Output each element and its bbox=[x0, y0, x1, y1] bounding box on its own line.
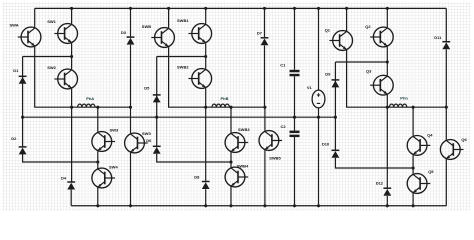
wire SW3 emitter to SW4 bbox=[97, 151, 99, 168]
svg-text:C2: C2 bbox=[281, 124, 287, 129]
wire D11 column bbox=[445, 8, 447, 42]
diode D6 bbox=[153, 146, 161, 154]
svg-text:SWA: SWA bbox=[10, 22, 19, 27]
transistor Q1 bbox=[329, 31, 352, 51]
svg-text:Q4: Q4 bbox=[427, 132, 433, 137]
inductor PhB bbox=[212, 104, 229, 107]
wire SWB2 emitter / D8 column bbox=[205, 88, 207, 181]
wire SW3 collector bbox=[97, 107, 99, 132]
wire bus n lower / lower wire n bbox=[335, 158, 413, 168]
node mid B / SWB1-SWB2 bbox=[204, 55, 207, 58]
node mid-bus / V1 bus bbox=[317, 116, 320, 119]
diode D5 bbox=[153, 95, 161, 103]
diode D7 bbox=[261, 38, 269, 46]
wire V1 bus upper bbox=[318, 8, 320, 90]
wire Q3 emitter / D12 column bbox=[386, 95, 388, 189]
capacitor C2 bbox=[290, 131, 300, 137]
svg-text:Q6: Q6 bbox=[461, 137, 467, 142]
node top rail / C bus bbox=[293, 7, 296, 10]
wire D4 anode to bottom rail bbox=[70, 190, 72, 206]
transistor SWB4 bbox=[225, 167, 248, 187]
node top rail / SWB bbox=[167, 7, 170, 10]
wire SWB3 emitter to SWB4 bbox=[230, 152, 232, 167]
node phase n / D11-Q6 bbox=[445, 106, 448, 109]
svg-text:D7: D7 bbox=[257, 30, 263, 35]
node bottom rail / D8 bbox=[204, 204, 207, 207]
node mid-bus / C link midpoint bbox=[293, 116, 296, 119]
wire SW5 collector bbox=[130, 107, 132, 133]
wire D12 anode to bottom rail bbox=[386, 196, 388, 206]
svg-text:Q3: Q3 bbox=[366, 69, 372, 74]
node phase n / Q4 bbox=[412, 106, 415, 109]
node mid n / Q2-Q3 bbox=[386, 60, 389, 63]
wire C bus upper bbox=[294, 8, 296, 69]
wire V1 bus lower bbox=[318, 108, 320, 206]
voltage source V1 bbox=[312, 90, 325, 108]
wire bus B lower / lower wire B bbox=[157, 154, 231, 162]
diode D12 bbox=[383, 188, 391, 196]
node top rail / V1 bbox=[317, 7, 320, 10]
transistor SW3 bbox=[92, 132, 115, 152]
capacitor C1 bbox=[290, 70, 300, 76]
svg-text:V1: V1 bbox=[307, 85, 313, 90]
transistor Q3 bbox=[370, 75, 393, 95]
svg-text:SW2: SW2 bbox=[47, 65, 56, 70]
svg-text:SWB: SWB bbox=[142, 24, 151, 29]
wire Q5 emitter bbox=[412, 193, 414, 206]
wire SWB5 emitter bbox=[264, 150, 266, 206]
wire bus A (D1-D2) bbox=[22, 57, 24, 148]
wire Q6 emitter bbox=[445, 159, 447, 206]
svg-text:C1: C1 bbox=[280, 63, 286, 68]
diode D4 bbox=[67, 182, 75, 190]
wire top rail bbox=[35, 7, 447, 9]
transistor Q4 bbox=[407, 136, 430, 156]
svg-text:SW5: SW5 bbox=[142, 131, 151, 136]
wire Q1 collector bbox=[346, 8, 348, 31]
svg-text:SW1: SW1 bbox=[47, 19, 56, 24]
wire SWB emitter to phase node bbox=[169, 47, 265, 107]
svg-text:SWB3: SWB3 bbox=[238, 127, 250, 132]
diode D2 bbox=[19, 147, 27, 155]
transistor SWB5 bbox=[259, 131, 282, 151]
transistor SW4 bbox=[92, 168, 115, 188]
node bottom rail / SWB5 bbox=[263, 204, 266, 207]
node mid-bus / bus A bbox=[21, 116, 24, 119]
svg-text:Q5: Q5 bbox=[428, 169, 434, 174]
node bottom rail / SW4 bbox=[96, 204, 99, 207]
diode D10 bbox=[332, 150, 340, 158]
wire D3 column bbox=[130, 8, 132, 37]
wire SW2 collector bbox=[71, 57, 73, 70]
node phase B / D7-SWB5 bbox=[263, 106, 266, 109]
node lower n / Q4-Q5 bbox=[412, 166, 415, 169]
node phase B / SWB3 bbox=[229, 106, 232, 109]
wire SWA collector bbox=[34, 8, 36, 27]
wire bus B (D5-D6) bbox=[156, 57, 158, 148]
node mid-bus / bus n end bbox=[334, 116, 337, 119]
wire SWB collector bbox=[168, 8, 170, 27]
wire C1 to mid-bus bbox=[294, 76, 296, 130]
wire SWB1 collector bbox=[205, 8, 207, 23]
svg-text:SWB5: SWB5 bbox=[269, 156, 281, 161]
wire D7 to phase wire bbox=[264, 46, 266, 108]
node phase B / SWB2-D8 bbox=[204, 106, 207, 109]
node top rail / D3 bbox=[129, 7, 132, 10]
transistor SW2 bbox=[54, 69, 77, 89]
node bottom rail / SW5 bbox=[129, 204, 132, 207]
node lower B / SWB3-SWB4 bbox=[229, 160, 232, 163]
wire SWB1 emitter lead bbox=[205, 43, 207, 56]
diode D11 bbox=[442, 42, 450, 50]
svg-text:Q2: Q2 bbox=[365, 24, 371, 29]
svg-text:Q1: Q1 bbox=[325, 28, 331, 33]
transistor Q2 bbox=[370, 27, 393, 47]
node top rail / Q2 bbox=[386, 7, 389, 10]
transistor SWB bbox=[151, 28, 174, 48]
node top rail / Q1 bbox=[345, 7, 348, 10]
wire D3 to phase wire bbox=[130, 45, 132, 107]
wire SW2 emitter / D4 column bbox=[71, 89, 73, 182]
wire mid wire n bbox=[335, 61, 387, 63]
svg-text:PhA: PhA bbox=[86, 96, 94, 101]
transistor SWB1 bbox=[189, 24, 212, 44]
wire SW1 collector bbox=[71, 8, 73, 23]
wire SWB5 collector bbox=[264, 107, 266, 131]
wire SWA emitter to phase node bbox=[35, 47, 131, 107]
svg-text:D1: D1 bbox=[13, 68, 19, 73]
transistor SW5 bbox=[125, 133, 148, 153]
wire bus A lower / lower wire A bbox=[23, 154, 98, 162]
inductor Phn bbox=[389, 104, 406, 107]
svg-text:D6: D6 bbox=[146, 138, 152, 143]
node phase A / SW3 bbox=[96, 106, 99, 109]
wire D7 column bbox=[264, 8, 266, 38]
wire mid wire B bbox=[157, 56, 206, 58]
wire bus n (D9-D10) bbox=[334, 62, 336, 151]
transistor SW1 bbox=[54, 24, 77, 44]
svg-text:D2: D2 bbox=[11, 136, 17, 141]
wire SWB3 collector bbox=[230, 107, 232, 133]
svg-text:SWB2: SWB2 bbox=[177, 64, 189, 69]
wire bottom rail bbox=[71, 205, 446, 207]
svg-text:D12: D12 bbox=[376, 180, 384, 185]
wire Q2 emitter lead bbox=[386, 47, 388, 62]
inductor PhA bbox=[78, 104, 95, 107]
wire SWB2 collector bbox=[205, 57, 207, 69]
svg-text:D8: D8 bbox=[194, 174, 200, 179]
node bottom rail / Q5 bbox=[412, 204, 415, 207]
node phase A / D3-SW5 bbox=[129, 106, 132, 109]
diode D8 bbox=[202, 182, 210, 190]
svg-text:D3: D3 bbox=[121, 30, 127, 35]
svg-text:SWB4: SWB4 bbox=[237, 163, 249, 168]
wire SW1 emitter / mid wire A bbox=[23, 56, 72, 58]
node mid A / SW1-SW2 bbox=[70, 55, 73, 58]
node mid-bus / bus B bbox=[155, 116, 158, 119]
node lower A / SW3-SW4 bbox=[96, 160, 99, 163]
wire SW4 emitter bbox=[97, 188, 99, 206]
node phase n / Q3-D12 bbox=[386, 106, 389, 109]
wire Q1 emitter to phase node bbox=[347, 50, 447, 107]
transistor SWA bbox=[18, 27, 41, 47]
wire SW1 emitter lead bbox=[71, 43, 73, 56]
diode D1 bbox=[19, 76, 27, 84]
wire SWB4 emitter bbox=[230, 187, 232, 206]
wire Q6 collector bbox=[445, 107, 447, 140]
wire SW5 emitter bbox=[130, 153, 132, 206]
node bottom rail / D12 bbox=[386, 204, 389, 207]
svg-text:SW3: SW3 bbox=[110, 127, 119, 132]
wire D8 anode to bottom rail bbox=[205, 189, 207, 206]
svg-text:SW4: SW4 bbox=[109, 165, 118, 170]
diode D9 bbox=[332, 80, 340, 88]
wire Q3 collector bbox=[386, 62, 388, 76]
wire Q4 collector bbox=[412, 107, 414, 136]
transistor Q5 bbox=[407, 174, 430, 194]
svg-text:D9: D9 bbox=[325, 71, 331, 76]
svg-text:PhB: PhB bbox=[221, 96, 229, 101]
node bottom rail / C bus bbox=[293, 204, 296, 207]
node top rail / SW1 bbox=[70, 7, 73, 10]
diode D3 bbox=[127, 37, 135, 45]
wire mid-bus (neutral) bbox=[23, 116, 336, 118]
svg-text:SWB1: SWB1 bbox=[177, 18, 189, 23]
wire C2 to bottom rail bbox=[294, 137, 296, 206]
svg-text:D11: D11 bbox=[434, 35, 442, 40]
wire Q4 emitter to Q5 bbox=[412, 155, 414, 174]
node bottom rail / SWB4 bbox=[229, 204, 232, 207]
svg-text:Phn: Phn bbox=[400, 96, 408, 101]
transistor SWB3 bbox=[225, 133, 248, 153]
transistor Q6 bbox=[440, 140, 463, 160]
wire Q2 collector bbox=[386, 8, 388, 27]
transistor SWB2 bbox=[189, 69, 212, 89]
node phase A / SW2-D4 bbox=[70, 106, 73, 109]
node top rail / D7 bbox=[263, 7, 266, 10]
node top rail / SWB1 bbox=[204, 7, 207, 10]
svg-text:D5: D5 bbox=[144, 86, 150, 91]
svg-text:D4: D4 bbox=[61, 176, 67, 181]
svg-text:D10: D10 bbox=[322, 141, 330, 146]
wire D11 to phase wire bbox=[445, 49, 447, 107]
node bottom rail / V1 bbox=[317, 204, 320, 207]
